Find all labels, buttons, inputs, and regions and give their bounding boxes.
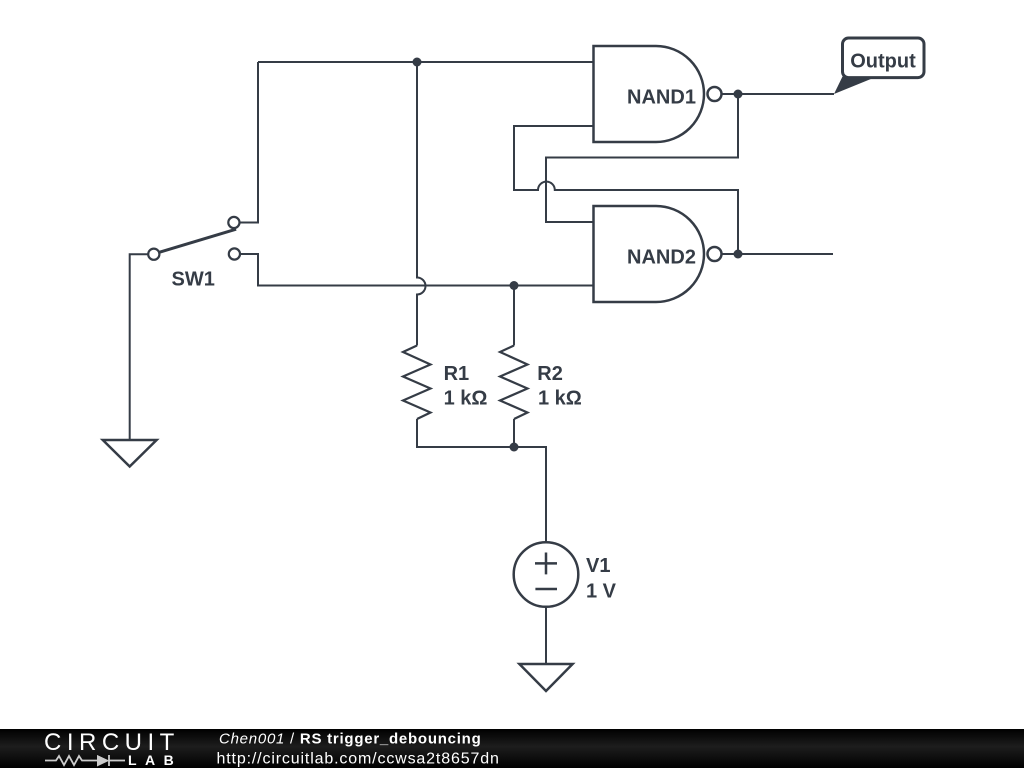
- net flag Output: [834, 38, 924, 94]
- svg-text:R1: R1: [444, 363, 470, 385]
- wire: SW1 common to ground: [130, 254, 149, 440]
- svg-text:NAND2: NAND2: [627, 247, 696, 269]
- wire: NAND2 output stub to the right: [722, 253, 834, 255]
- svg-text:LAB: LAB: [128, 752, 182, 768]
- junction dot at (417,62): [413, 58, 422, 67]
- NAND gate NAND2: [594, 206, 722, 302]
- SW1 common terminal circle: [148, 249, 159, 260]
- NAND gate NAND1: [594, 46, 722, 142]
- footer bar: [0, 729, 1024, 768]
- svg-text:V1: V1: [586, 555, 610, 577]
- wire: bottom net R1/R2 to V1 plus: [417, 419, 546, 542]
- wire: R1 top wire with hop over horizontal net (vertical x=417): [417, 62, 426, 346]
- CircuitLab logo: resistor-diode glyph: [45, 755, 125, 767]
- svg-text:1 V: 1 V: [586, 581, 617, 603]
- wire: NAND1 output feedback down-left to NAND2 input A: [546, 94, 738, 222]
- wire: V1 minus to ground: [545, 607, 547, 664]
- ground (left, below SW1): [103, 440, 157, 467]
- svg-text:1 kΩ: 1 kΩ: [444, 388, 488, 410]
- SW1 lower throw circle: [229, 248, 240, 259]
- svg-text:NAND1: NAND1: [627, 87, 696, 109]
- junction dot at (514,447): [510, 443, 519, 452]
- ground (below V1): [519, 664, 572, 691]
- resistor R1: [403, 346, 431, 420]
- SW1 upper throw circle: [228, 217, 239, 228]
- svg-text:R2: R2: [537, 363, 563, 385]
- wire: top net from SW1 upper throw to NAND1 input A: [258, 61, 594, 63]
- wire: vertical from upper throw up to top net: [240, 62, 258, 223]
- wire: NAND1 output to Output flag: [722, 93, 835, 95]
- wire: R2 top from y=285.5 net: [513, 286, 515, 346]
- voltage source V1: [514, 542, 579, 607]
- svg-text:1 kΩ: 1 kΩ: [538, 388, 582, 410]
- SW1 arm: [159, 229, 236, 252]
- svg-text:Chen001 / RS trigger_debouncin: Chen001 / RS trigger_debouncing: [219, 731, 482, 748]
- resistor R2: [500, 346, 528, 420]
- wire: SW1 lower throw to NAND2 input B (y=285.5): [240, 254, 594, 286]
- junction dot at (738,94): [734, 90, 743, 99]
- switch SW1: [148, 217, 240, 260]
- svg-text:SW1: SW1: [172, 269, 215, 291]
- wire: NAND2 output feedback up-left to NAND1 input B, hop over x=546: [514, 126, 738, 254]
- svg-text:Output: Output: [850, 50, 916, 72]
- svg-text:http://circuitlab.com/ccwsa2t8: http://circuitlab.com/ccwsa2t8657dn: [217, 750, 500, 767]
- wire: R2 bottom into bottom net: [513, 419, 515, 447]
- junction dot at (514,285.5): [510, 281, 519, 290]
- junction dot at (738,254): [734, 250, 743, 259]
